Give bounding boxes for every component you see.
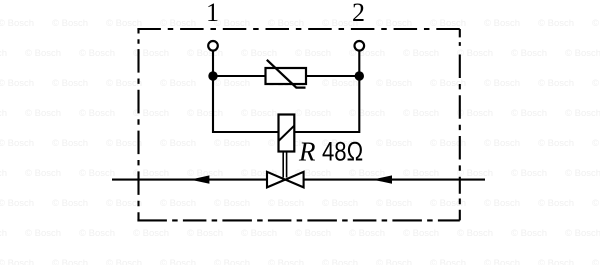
svg-text:R: R (298, 136, 316, 166)
svg-text:2: 2 (352, 0, 365, 27)
svg-text:1: 1 (206, 0, 219, 27)
svg-text:48Ω: 48Ω (322, 138, 363, 168)
